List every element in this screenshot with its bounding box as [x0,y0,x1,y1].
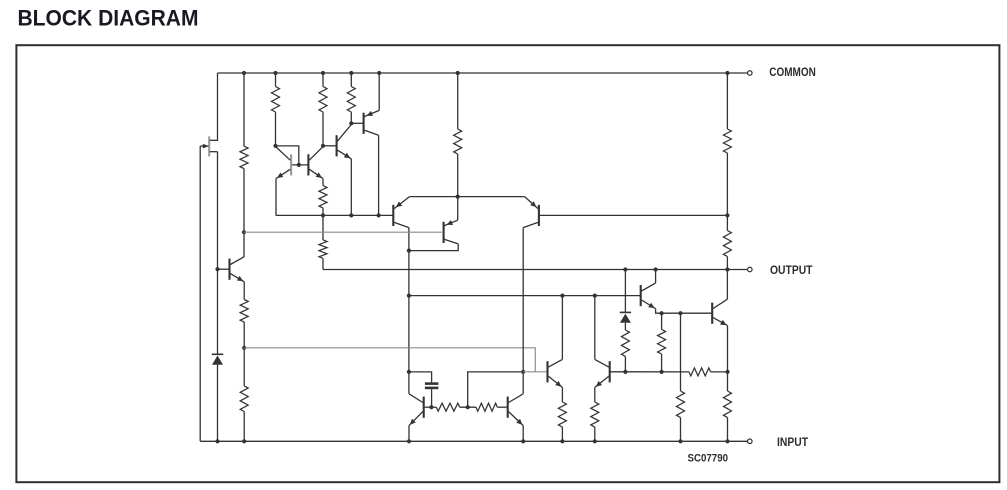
node rail dot x351 [349,71,353,75]
node x408 y295 junction [407,294,411,298]
resistor R10 [240,300,248,323]
node output line dot x727 [725,267,729,271]
transistor Q10 [423,397,425,418]
resistor R12 [621,330,629,356]
resistor R3 [319,87,327,112]
wire R5 to emitter rail and Q8 emitter [457,154,459,220]
node Q6 base node [349,121,353,125]
node output line dot x655 [654,267,658,271]
node rail dot x562 [560,439,564,443]
wire R20 to emitter node [711,371,728,373]
wire R12 to y372 [624,356,626,372]
resistor R17 [591,402,599,427]
wire x680 down [680,313,682,391]
transistor Q2 [228,259,230,280]
wire comp node down [243,348,245,386]
transistor J1 JFET [208,136,210,156]
resistor R13 [658,329,666,354]
wire Q12 collector up [561,296,563,360]
transistor Q3 [290,154,292,175]
node bus dot x378 [377,213,381,217]
wire Q10 base wire [425,406,437,408]
resistor R6 [723,129,731,153]
wire Q13 emitter down [594,387,596,402]
node divider mid node [725,213,729,217]
wire y295 line [409,295,640,297]
node y313 dot x661 [660,311,664,315]
node cap / Q10 base node [429,405,433,409]
wire Q3 emitter to bus [275,179,277,216]
wire R9 to output line [322,258,324,269]
wire Q5 emitter to bus [350,159,352,216]
resistor R18 [436,403,460,411]
node COMMON terminal [748,71,753,76]
wire compensation line [244,348,546,372]
node y313 dot x680 [678,311,682,315]
wire rail to R2 [275,73,277,87]
node Q3 collector-base node [273,144,277,148]
resistor R5 [454,129,462,154]
wire R4 down to Q6 base node [350,112,352,123]
wire long bias line [244,231,443,233]
wire rail to R4 [350,73,352,87]
transistor Q7 (pnp) [392,205,394,226]
transistor Q5 [336,135,338,156]
wire bus to R9 [322,215,324,240]
svg-text:INPUT: INPUT [777,435,809,449]
resistor R15 [724,391,732,418]
wire rail to R3 [322,73,324,87]
transistor Q9 (pnp) [538,205,540,226]
wire x661 down [661,313,663,329]
wire D1 anode to input rail [217,365,219,442]
wire R10 to comp node [243,322,245,348]
resistor R4 [347,87,355,112]
wire R19 to Q11 base [497,406,506,408]
svg-text:BLOCK DIAGRAM: BLOCK DIAGRAM [18,5,199,30]
resistor R20 [689,368,711,376]
wire R1 to rail [243,73,245,146]
wire Q9 collector down [522,228,524,394]
wire R11 to input rail [243,412,245,442]
node y372 dot x625 [623,370,627,374]
node x408 y371 cap node [407,370,411,374]
wire rail to R6 [726,73,728,129]
wire R18-R19 link [460,406,476,408]
wire Q15 emitter down [727,326,729,391]
wire R2 to mirror node [275,112,277,146]
diode D2 [620,311,631,313]
transistor Q4 [307,154,309,175]
node y295 dot x594 [593,294,597,298]
wire R13 to y372 [661,354,663,372]
wire COMMON top rail [218,72,748,74]
node OUTPUT terminal [748,267,753,272]
wire Q4 emitter to R8 [322,179,324,186]
resistor R11 [240,386,248,412]
wire R15 to rail [727,418,729,442]
node Q9 collector / comp junction [521,370,525,374]
transistor Q11 [507,397,509,418]
wire Q12 emitter down [561,387,563,402]
wire Q7 collector down [408,228,410,394]
node emitter rail center [456,195,460,199]
resistor R8 [319,186,327,208]
transistor Q6 (pnp) [363,113,365,134]
node comp line tap [242,346,246,350]
wire Q14 collector up [655,270,657,284]
transistor Q12 [546,361,548,382]
wire Q2 base [218,268,229,270]
wire mid node riser [468,372,524,407]
node y372 dot x661 [660,370,664,374]
node rail dot x275 [273,71,277,75]
wire Q15 collector up [726,270,728,300]
node bus dot x351 [349,213,353,217]
wire R6 to mid node [726,153,728,215]
node rail dot x323 [321,71,325,75]
node rail dot x523 [521,439,525,443]
wire INPUT bottom rail [200,440,747,442]
node rail dot x409 [407,439,411,443]
wire Q6 collector to bus [378,135,380,215]
transistor Q15 [711,303,713,324]
node J1 source / Q2 base junction [215,267,219,271]
wire OUTPUT line [323,269,747,271]
wire D2 anode to R12 [624,323,626,330]
resistor R1 [240,146,248,168]
wire J1 gate feedback [199,146,201,441]
resistor R9 [319,240,327,258]
node bus dot x323 [321,213,325,217]
node input rail dot x217 [215,439,219,443]
wire Q13 base line y372 [611,371,689,373]
node Q15 emitter node [725,370,729,374]
wire R17 to rail [594,427,596,441]
wire cap top wire [409,372,432,383]
resistor R16 [558,402,566,427]
wire Q2 collector up / R1 column [243,169,245,258]
node rail dot x244 [242,71,246,75]
wire Q8 collector tie [409,244,458,251]
diode D1 [212,353,223,355]
wire Q9 base to right rail [540,214,728,216]
transistor Q14 [640,285,642,306]
node rail dot x727 [725,439,729,443]
wire D2 cathode wire [624,270,626,313]
wire diff emitter rail [410,196,525,198]
wire JFET drain to rail [217,73,219,141]
wire rail to R5 [457,73,459,129]
svg-text:SC07790: SC07790 [688,453,729,465]
wire bias bus [276,214,393,216]
wire Q6 emitter to rail [378,73,380,110]
node output line dot x625 [623,267,627,271]
node rail dot x727 top [725,71,729,75]
node rail dot x594 [593,439,597,443]
node mirror base junction [297,163,301,167]
capacitor C1 [425,382,439,385]
transistor Q13 [609,361,611,382]
resistor R19 [476,403,497,411]
wire base tie across [292,164,309,166]
wire Q11 emitter to rail [522,426,524,442]
node long-line tap [242,230,246,234]
node input rail dot x244 [242,439,246,443]
wire mirror base tie [276,146,299,165]
wire y313 base line [662,312,712,314]
wire Q6 base [351,122,362,124]
wire cap bottom wire [431,389,433,407]
wire comp stub [523,371,535,373]
wire R7 to output line [726,257,728,270]
wire R14 to rail [680,418,682,442]
wire Q10 emitter to rail [408,426,410,442]
svg-text:COMMON: COMMON [769,65,816,79]
resistor R14 [677,391,685,418]
resistor R2 [272,87,280,112]
node Q4 collector node [321,144,325,148]
resistor R7 [723,231,731,257]
transistor Q8 (pnp) [443,222,445,243]
wire mid to R7 [726,215,728,230]
svg-text:OUTPUT: OUTPUT [770,263,813,277]
node y295 dot x562 [560,294,564,298]
wire Q13 collector up [594,296,596,360]
wire R16 to rail [561,427,563,441]
node INPUT terminal [748,439,753,444]
node rail dot x457 [456,71,460,75]
wire R3 down to Q4 collector node [322,112,324,146]
node rail dot x680 [678,439,682,443]
wire Q2 emitter down [243,282,245,300]
node R18/R19 mid node [466,405,470,409]
node Q7 collector tie dot [407,249,411,253]
node rail dot x379 [377,71,381,75]
wire R8 to bus [322,208,324,215]
wire Q5 base [323,145,336,147]
wire J1 source down [217,152,219,355]
wire Q14 emitter path [656,309,662,314]
